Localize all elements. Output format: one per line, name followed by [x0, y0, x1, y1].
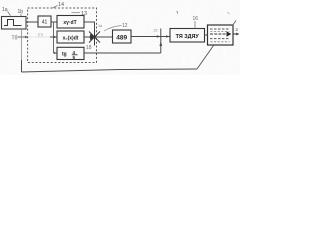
leader 14 [52, 6, 58, 9]
wire B1 out [84, 22, 95, 31]
block 489 [113, 30, 132, 43]
delay hatch row 1 [210, 28, 230, 30]
leader top right [233, 21, 237, 26]
scan noise overlay [0, 0, 240, 75]
trigger box [170, 29, 205, 43]
wire B3 out along bottom [84, 52, 161, 54]
wire B2 out to junction [84, 36, 112, 38]
block B1 [57, 16, 84, 29]
output arrow [233, 33, 237, 35]
leader 13 [72, 12, 81, 14]
wire 41 to B1 [51, 21, 57, 23]
pulse waveform symbol [4, 20, 22, 26]
leader 12 [104, 26, 122, 32]
delay hatch row 3 [210, 38, 230, 40]
wire bus to B2 [54, 36, 58, 38]
block 41 [38, 16, 51, 27]
feedback diagonal from delay box [197, 46, 214, 70]
branch bus wire [53, 22, 55, 53]
leader 16 [194, 21, 196, 29]
wire 489 to trigger box [131, 36, 170, 38]
wire trigger to delay box [205, 34, 208, 36]
faint wire to B2 [28, 36, 50, 38]
delay hatch row 3b [211, 41, 230, 43]
arrowhead up [159, 42, 162, 47]
Tb input wire [18, 36, 26, 38]
wire pulse box to block 41 [26, 21, 38, 23]
delay box 2 [208, 25, 234, 45]
wire bus to B3 [54, 52, 58, 54]
wire up to main line [160, 29, 162, 54]
pulse generator box 1 [2, 17, 27, 30]
dashed box 13 [28, 8, 97, 63]
junction node 12 (crossing arrows) [89, 32, 100, 43]
arrow into B2 [50, 36, 57, 38]
leader 16 [20, 14, 22, 17]
arrowhead onto node [157, 35, 160, 38]
feedback bottom line [22, 69, 198, 72]
block B2 [57, 31, 84, 43]
block B3 [57, 47, 84, 59]
delay hatch row 2b [211, 31, 230, 33]
leader 1a [8, 12, 11, 16]
speck marks [177, 11, 179, 14]
delay hatch row 2 with arrow [210, 33, 227, 35]
feedback up line [21, 60, 23, 72]
